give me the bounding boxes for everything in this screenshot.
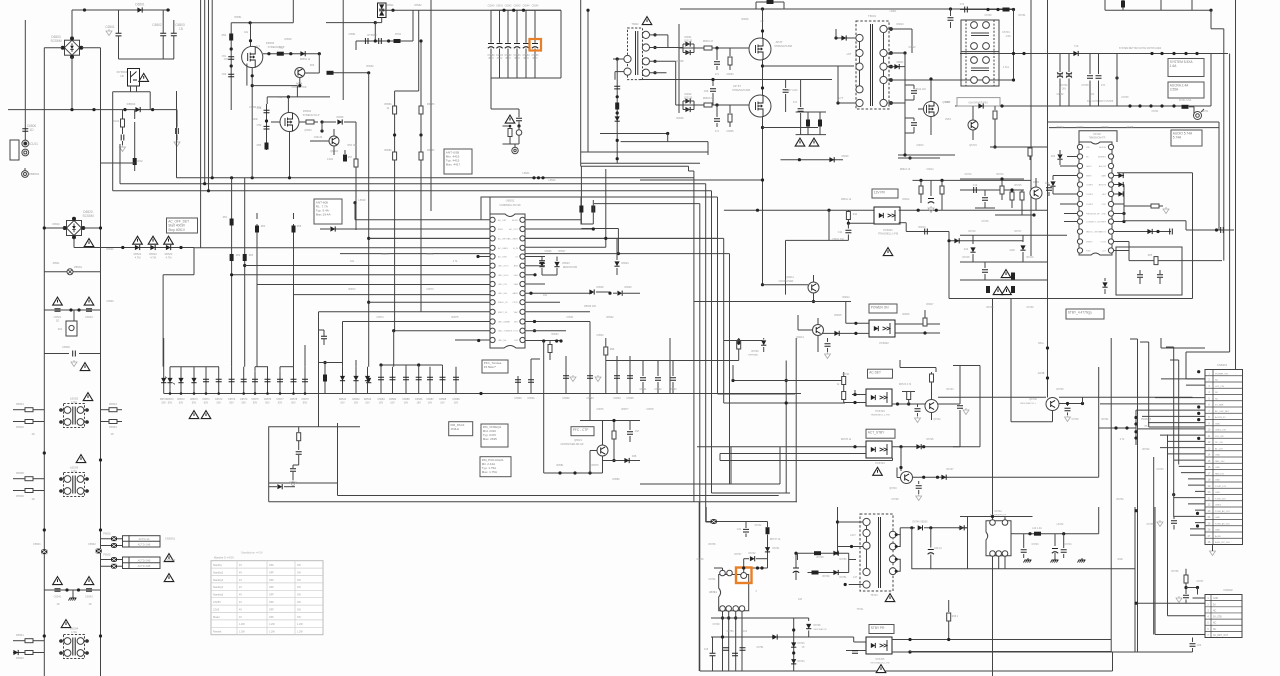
svg-text:GAIN: GAIN <box>1101 175 1106 178</box>
wire y241.5 link <box>1114 241 1130 243</box>
svg-text:R6731: R6731 <box>1101 418 1109 421</box>
svg-text:50V: 50V <box>291 401 296 404</box>
svg-text:VAC_GAME: VAC_GAME <box>498 321 511 324</box>
wire u6742 top feeds <box>992 517 994 521</box>
svg-text:R6551: R6551 <box>234 16 242 19</box>
wire source bus y85.6 <box>252 85 297 87</box>
diode D6701 <box>978 103 983 108</box>
wire x319 riser <box>318 54 320 73</box>
svg-text:D6580: D6580 <box>612 478 620 481</box>
component R6573 on ground comb <box>193 367 195 394</box>
resistor R6555 <box>299 121 318 123</box>
capacitor C6565 <box>518 109 520 117</box>
svg-text:D6609: D6609 <box>842 156 849 158</box>
svg-text:R54: R54 <box>257 143 262 147</box>
connector CN6901 row line 19 <box>1205 487 1243 489</box>
safety cap CX6701 <box>1059 54 1061 73</box>
svg-text:C6614: C6614 <box>926 168 934 171</box>
svg-text:D6501: D6501 <box>135 3 145 7</box>
svg-text:A_IN: A_IN <box>513 247 518 250</box>
wire y221 to staircase <box>1124 220 1186 222</box>
callout ANT-USB <box>444 149 472 174</box>
callout ANT-608 <box>314 199 342 224</box>
svg-text:D6504: D6504 <box>303 109 312 113</box>
svg-text:4V: 4V <box>239 586 242 589</box>
ic U6501 pin 24 right <box>520 254 525 259</box>
svg-text:R6617: R6617 <box>926 303 934 306</box>
resistor R6612 <box>924 310 926 318</box>
svg-text:D6524: D6524 <box>621 262 629 265</box>
ic U6501 body <box>490 214 525 348</box>
svg-text:4V: 4V <box>239 579 242 582</box>
svg-text:16V: 16V <box>454 401 459 404</box>
capacitor C6662 bank <box>507 10 509 43</box>
svg-text:4x15B: 4x15B <box>1038 372 1045 375</box>
wire y368 link <box>900 367 936 369</box>
wire pinR3 <box>525 237 717 239</box>
svg-text:50V: 50V <box>278 401 283 404</box>
wire CN6901 row 23 lead <box>1195 509 1205 511</box>
svg-text:Z6502: Z6502 <box>387 4 394 7</box>
wire cn2 bottom link <box>1138 651 1193 653</box>
svg-text:R6719: R6719 <box>1026 256 1034 259</box>
svg-text:SCS6M: SCS6M <box>51 39 62 43</box>
junction <box>1115 76 1118 79</box>
ic U6501 pin 19 right <box>520 300 525 305</box>
svg-text:R6575: R6575 <box>451 316 459 319</box>
diode pair D6601 <box>685 50 690 55</box>
svg-text:50V: 50V <box>253 401 258 404</box>
wire sensor down <box>510 143 519 145</box>
wire CN6901 row 16 lead <box>1179 465 1205 467</box>
callout ACT_STBY <box>866 429 895 438</box>
component R6571 on ground comb <box>163 367 165 394</box>
svg-text:D6741: D6741 <box>772 547 780 550</box>
svg-text:ACTD-1AB: ACTD-1AB <box>138 543 151 547</box>
svg-text:R6714: R6714 <box>996 173 1004 176</box>
wire y133.5 link <box>600 133 668 135</box>
T6602 junction dots <box>653 33 656 36</box>
resistor R6533 <box>109 408 117 412</box>
svg-text:D6528: D6528 <box>596 286 604 289</box>
svg-text:C52: C52 <box>222 73 227 76</box>
component C6589 on ground comb <box>455 367 457 394</box>
svg-text:ON: ON <box>297 608 301 611</box>
zener D6703 <box>1052 176 1054 181</box>
T6602 windings <box>624 55 631 62</box>
comb sub-bus D <box>381 364 443 366</box>
svg-text:R6609: R6609 <box>676 117 684 120</box>
capacitor C6602 <box>657 361 659 377</box>
svg-text:ON: ON <box>297 564 301 567</box>
svg-text:OFF: OFF <box>269 616 274 619</box>
svg-text:AC_DET: AC_DET <box>498 219 507 222</box>
svg-text:P6501: P6501 <box>103 532 111 536</box>
svg-text:FB6501: FB6501 <box>29 172 40 176</box>
svg-text:Standby5: Standby5 <box>213 594 224 597</box>
svg-text:U6741: U6741 <box>709 590 717 594</box>
svg-text:5V_STB: 5V_STB <box>1213 617 1222 619</box>
component C6588 on ground comb <box>442 367 444 394</box>
svg-text:D6726: D6726 <box>926 438 934 441</box>
ic U6501 pin 20 right <box>520 291 525 296</box>
svg-text:C10: C10 <box>973 184 978 187</box>
svg-text:1D: 1D <box>110 433 113 436</box>
wire right verticals lower <box>1134 507 1136 652</box>
mosfet Q6501 <box>242 46 263 67</box>
svg-text:Model: Model <box>213 616 220 619</box>
svg-text:1SS133: 1SS133 <box>684 40 693 43</box>
svg-text:12V/5: 12V/5 <box>213 608 220 611</box>
wire y231.5 link <box>1114 231 1172 233</box>
svg-text:PWD: PWD <box>1086 251 1091 253</box>
svg-text:RY02: RY02 <box>395 33 402 36</box>
svg-text:16V: 16V <box>390 401 395 404</box>
capacitor C6592 <box>565 356 567 394</box>
ic U6702 pin 9 left <box>1077 219 1082 224</box>
connector CN6902 row line 3 <box>1205 612 1242 614</box>
component C6575 on ground comb <box>254 367 256 394</box>
svg-text:50V: 50V <box>216 401 221 404</box>
svg-text:472: 472 <box>1101 84 1106 87</box>
components top of ACDET tile <box>738 338 740 345</box>
wire CN6901 row 10 lead <box>1138 428 1206 430</box>
wire bus5 y238.4 <box>369 237 724 239</box>
svg-text:4V: 4V <box>239 594 242 597</box>
junction <box>92 108 95 111</box>
svg-text:450V: 450V <box>505 57 511 60</box>
wire corner step <box>1211 28 1224 30</box>
component C6571 on ground comb <box>205 367 207 394</box>
resistor R6554 dark <box>265 143 269 150</box>
wire u6742 bottom pins <box>992 556 994 568</box>
wire CN6901 row 17 lead <box>1181 472 1205 474</box>
svg-text:VREF: VREF <box>1101 222 1107 224</box>
highlight orange 2 <box>736 568 752 584</box>
transformer core <box>870 24 872 106</box>
connector CN6901 row line 7 <box>1205 412 1243 414</box>
ic U6501 pin 21 right <box>520 281 525 286</box>
capacitor C6595 <box>629 356 631 394</box>
resistor R6618 <box>920 180 922 186</box>
svg-text:OFF: OFF <box>269 579 274 582</box>
diode D6752 <box>772 634 777 639</box>
svg-text:ON: ON <box>297 601 301 604</box>
wire y22.6 TVS segment <box>326 22 375 24</box>
wire U6702 left pin wires <box>1067 156 1078 158</box>
svg-text:R6570: R6570 <box>381 253 389 256</box>
svg-text:OFF: OFF <box>269 601 274 604</box>
wire x1123 stub <box>1122 0 1124 10</box>
diode D6741 <box>765 547 770 552</box>
wire opto3 out <box>892 403 960 405</box>
capacitor C6611 <box>847 223 849 228</box>
ic U6501 pin 7 left <box>490 272 495 277</box>
wire relay left leg down <box>112 92 114 191</box>
ic U6702 pin 15 right <box>1108 219 1113 224</box>
mosfet Q6602 <box>749 95 771 117</box>
svg-text:D6610: D6610 <box>896 23 904 26</box>
wire pinR2 <box>525 228 593 230</box>
svg-text:Z02: Z02 <box>1051 155 1056 158</box>
wire bridge2 bottom to pin4 line <box>73 238 75 248</box>
wire x1013 riser <box>1013 9 1015 79</box>
wire pin2 ext right of IC region <box>581 228 618 230</box>
svg-text:C6703: C6703 <box>1121 96 1129 99</box>
svg-text:16V: 16V <box>365 401 370 404</box>
svg-text:NC: NC <box>1213 610 1217 612</box>
junction bus1 <box>211 176 214 179</box>
wire u6742 out <box>1014 533 1099 535</box>
svg-text:1.5A: 1.5A <box>71 630 77 634</box>
dots right verticals <box>1134 509 1137 512</box>
svg-text:C6744: C6744 <box>1064 543 1072 546</box>
svg-text:L6532: L6532 <box>549 179 557 182</box>
svg-text:0.022: 0.022 <box>327 158 334 161</box>
wire x588 vertical <box>587 10 589 152</box>
svg-text:C6603: C6603 <box>669 388 677 391</box>
capacitor C6594 <box>616 356 618 394</box>
wire x967 loop <box>967 517 969 569</box>
resistor R6536 <box>25 489 33 493</box>
svg-text:C71: C71 <box>960 3 965 6</box>
svg-text:D6742: D6742 <box>748 552 756 555</box>
wire y250 link <box>1114 250 1130 252</box>
wire CN6901 row 3 lead <box>1186 384 1205 386</box>
svg-text:GND: GND <box>1213 598 1218 600</box>
svg-text:C6749: C6749 <box>712 623 720 626</box>
ic U6501 pin 10 left <box>490 300 495 305</box>
ic U6501 pin 22 right <box>520 272 525 277</box>
capacitor C6665 bank <box>534 10 536 43</box>
resistor R6585 <box>509 126 511 129</box>
svg-text:R6720: R6720 <box>986 306 994 309</box>
wire pin wire caps <box>710 653 716 656</box>
svg-text:50V: 50V <box>204 401 209 404</box>
svg-text:SCS6M: SCS6M <box>83 214 94 218</box>
svg-text:GND: GND <box>1215 467 1220 469</box>
wire ic feed left <box>722 568 724 571</box>
wire top feed <box>680 8 1014 10</box>
diode D6705 on bus <box>1073 51 1078 56</box>
svg-text:Q6723: Q6723 <box>889 487 897 490</box>
svg-text:Y10: Y10 <box>1074 44 1079 48</box>
capacitor C6705 <box>1048 184 1050 186</box>
wire top bus from TVS <box>382 9 561 11</box>
component C6576 on ground comb <box>267 367 269 394</box>
svg-text:50V: 50V <box>229 401 234 404</box>
svg-text:R6747 10: R6747 10 <box>770 538 781 541</box>
svg-text:C41: C41 <box>737 528 742 531</box>
svg-text:ACTD-2AB: ACTD-2AB <box>138 559 151 563</box>
svg-text:AVLOW: AVLOW <box>1099 165 1106 168</box>
resistor R6597 <box>613 421 615 432</box>
svg-text:R6522: R6522 <box>149 252 157 256</box>
svg-text:450V: 450V <box>488 57 494 60</box>
resistor R6701 dark <box>1003 8 1010 12</box>
svg-text:C6613: C6613 <box>916 144 924 147</box>
wire x699 bottom <box>698 502 700 671</box>
svg-text:15.5kHz*: 15.5kHz* <box>484 365 497 369</box>
warning triangle opto5 <box>876 665 886 673</box>
resistor R6602 <box>704 46 712 50</box>
wire q6521 wiring <box>602 421 604 446</box>
key jack J6701 <box>1189 106 1194 108</box>
component D6571 on ground comb <box>169 367 171 394</box>
svg-text:C6612 102: C6612 102 <box>914 88 926 91</box>
T6741 secondary windings <box>889 531 896 538</box>
callout POWER ON <box>869 304 897 313</box>
capacitor C6618 <box>930 180 932 196</box>
svg-text:R61: R61 <box>223 216 228 219</box>
svg-text:AVDD: AVDD <box>512 219 518 222</box>
wire x368.7 long vertical <box>368 73 370 367</box>
diode D6506 <box>337 119 342 124</box>
svg-text:4.7M: 4.7M <box>135 256 141 260</box>
resistor R6552 dark <box>277 52 284 56</box>
svg-text:C6552 471: C6552 471 <box>249 106 261 109</box>
svg-text:C6545: C6545 <box>532 6 539 8</box>
wire bus2 y183.7 <box>120 183 706 185</box>
svg-text:CM6800A-TR-96: CM6800A-TR-96 <box>499 203 521 207</box>
svg-text:GND: GND <box>1215 530 1220 532</box>
wire descender x244 <box>244 178 246 367</box>
junction bus6 <box>617 252 620 255</box>
svg-text:Q6503: Q6503 <box>304 129 312 132</box>
capacitor C6701 <box>965 7 968 13</box>
diode D6539 <box>277 484 282 489</box>
wire x431 vertical <box>430 0 432 211</box>
wire x293 riser <box>292 0 294 23</box>
svg-text:GND: GND <box>1215 480 1220 482</box>
svg-text:R46 1: R46 1 <box>952 615 959 618</box>
wire right pins to bus <box>1123 185 1125 222</box>
capacitor C6663 bank <box>516 10 518 43</box>
resistor R6710 <box>1000 186 1004 194</box>
svg-text:R57: R57 <box>348 156 353 159</box>
svg-text:R6577: R6577 <box>621 408 629 411</box>
resistor R6551 dark <box>229 34 233 41</box>
T6602 row3 lead <box>650 60 676 62</box>
wire q6723 out <box>913 476 1099 478</box>
svg-text:C6501: C6501 <box>105 25 115 29</box>
svg-text:3.55A: 3.55A <box>1170 88 1179 92</box>
wire y180 from left <box>640 179 763 181</box>
svg-text:Max. 2635: Max. 2635 <box>483 437 497 441</box>
svg-text:OFF: OFF <box>269 564 274 567</box>
svg-text:2kV: 2kV <box>1062 87 1067 90</box>
ic U6702 pin 7 left <box>1077 201 1082 206</box>
connector CN6901 row line 15 <box>1205 462 1243 464</box>
svg-text:R6571: R6571 <box>426 253 434 256</box>
svg-text:16V: 16V <box>404 401 409 404</box>
svg-text:L6742: L6742 <box>1057 523 1064 526</box>
svg-text:C6720: C6720 <box>1026 306 1034 309</box>
wire CN6901 row 24 lead <box>1174 515 1205 517</box>
svg-text:50V: 50V <box>192 401 197 404</box>
junction <box>419 133 422 136</box>
svg-text:NC: NC <box>1215 392 1219 394</box>
junction pin13 <box>392 329 395 332</box>
svg-text:C6521: C6521 <box>54 315 62 319</box>
svg-text:Standby: Standby <box>213 564 223 567</box>
svg-text:OFF: OFF <box>269 594 274 597</box>
zener D6704 <box>1102 282 1107 287</box>
svg-text:4.7M: 4.7M <box>166 256 172 260</box>
capacitor C6749 <box>1054 534 1056 546</box>
svg-text:D6744: D6744 <box>797 660 805 663</box>
capacitor C6530 series <box>44 353 69 355</box>
callout AUDIO <box>1171 130 1202 146</box>
ic U6741 top pins <box>720 570 726 576</box>
wire CN6901 row 14 lead <box>1168 453 1206 455</box>
wire bus vertical A <box>200 0 202 248</box>
svg-text:R6734: R6734 <box>1116 498 1124 501</box>
svg-text:CONNECTOR: CONNECTOR <box>292 87 307 89</box>
svg-text:1SS133: 1SS133 <box>314 136 323 139</box>
wire transformer primary top <box>838 521 864 523</box>
resistor pair R6522 <box>150 245 155 250</box>
capacitor C6503 <box>173 20 175 33</box>
svg-text:1D: 1D <box>56 603 59 606</box>
svg-text:POWER ON: POWER ON <box>871 305 889 309</box>
transformer T6741 dashed box <box>860 514 893 591</box>
svg-text:PC6602: PC6602 <box>879 341 889 345</box>
svg-text:450V: 450V <box>523 57 529 60</box>
wire x177 down <box>176 110 178 128</box>
connector CN6902 row line 4 <box>1205 618 1242 620</box>
svg-text:Q6730: Q6730 <box>1029 398 1037 401</box>
ic U6742 body <box>986 521 1011 556</box>
transistor Q6722 <box>925 400 938 413</box>
wire x767 down <box>767 535 769 569</box>
svg-text:R6581: R6581 <box>556 464 564 467</box>
ic U6501 pin 25 right <box>520 245 525 250</box>
wire main AC line <box>8 109 177 111</box>
wire opto4 bottom pin <box>720 453 866 455</box>
wire y9 right segment <box>960 9 1014 11</box>
svg-text:A-SW: A-SW <box>1215 535 1222 538</box>
wire x1047 long vertical <box>1047 0 1049 338</box>
AC_OFF_DET callout box <box>167 218 198 233</box>
wire mosfet drain <box>250 23 252 47</box>
wire y262 bus <box>960 261 1047 263</box>
svg-text:Marche 5 +4 5V: Marche 5 +4 5V <box>214 556 234 560</box>
wire x670 descender <box>669 338 671 394</box>
capacitor C6664 bank <box>525 10 527 43</box>
resistor R6619 <box>941 180 943 186</box>
wire step down2 <box>162 275 164 367</box>
wire y280 bus <box>960 279 1047 281</box>
svg-text:R6701: R6701 <box>1018 14 1026 17</box>
junction x786 <box>785 379 788 382</box>
svg-text:C6702: C6702 <box>1056 93 1064 96</box>
junction <box>69 308 72 311</box>
wire nest A2 <box>689 170 694 172</box>
svg-text:ON: ON <box>297 586 301 589</box>
wire secondary out 5 <box>887 102 905 104</box>
svg-text:VAC_SOU: VAC_SOU <box>498 265 509 268</box>
wire x905 down <box>904 53 906 155</box>
capacitor C6741 <box>745 522 747 529</box>
svg-text:Max. 4417: Max. 4417 <box>446 163 461 167</box>
resistor R6582 <box>393 152 397 160</box>
capacitor C6599 <box>290 469 296 472</box>
wire y284 link <box>763 284 809 286</box>
transformer T6601 primary windings <box>856 34 863 41</box>
wire bus6 y253.6 <box>340 253 730 255</box>
junction <box>558 471 561 474</box>
